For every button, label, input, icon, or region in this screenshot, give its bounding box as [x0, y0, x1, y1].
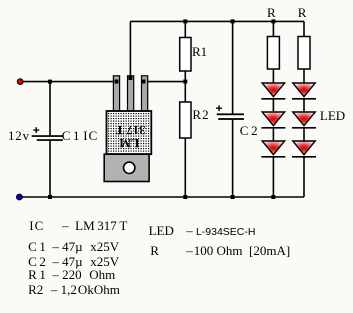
svg-text:317 T: 317 T	[115, 123, 145, 137]
svg-text:LM: LM	[119, 136, 139, 150]
